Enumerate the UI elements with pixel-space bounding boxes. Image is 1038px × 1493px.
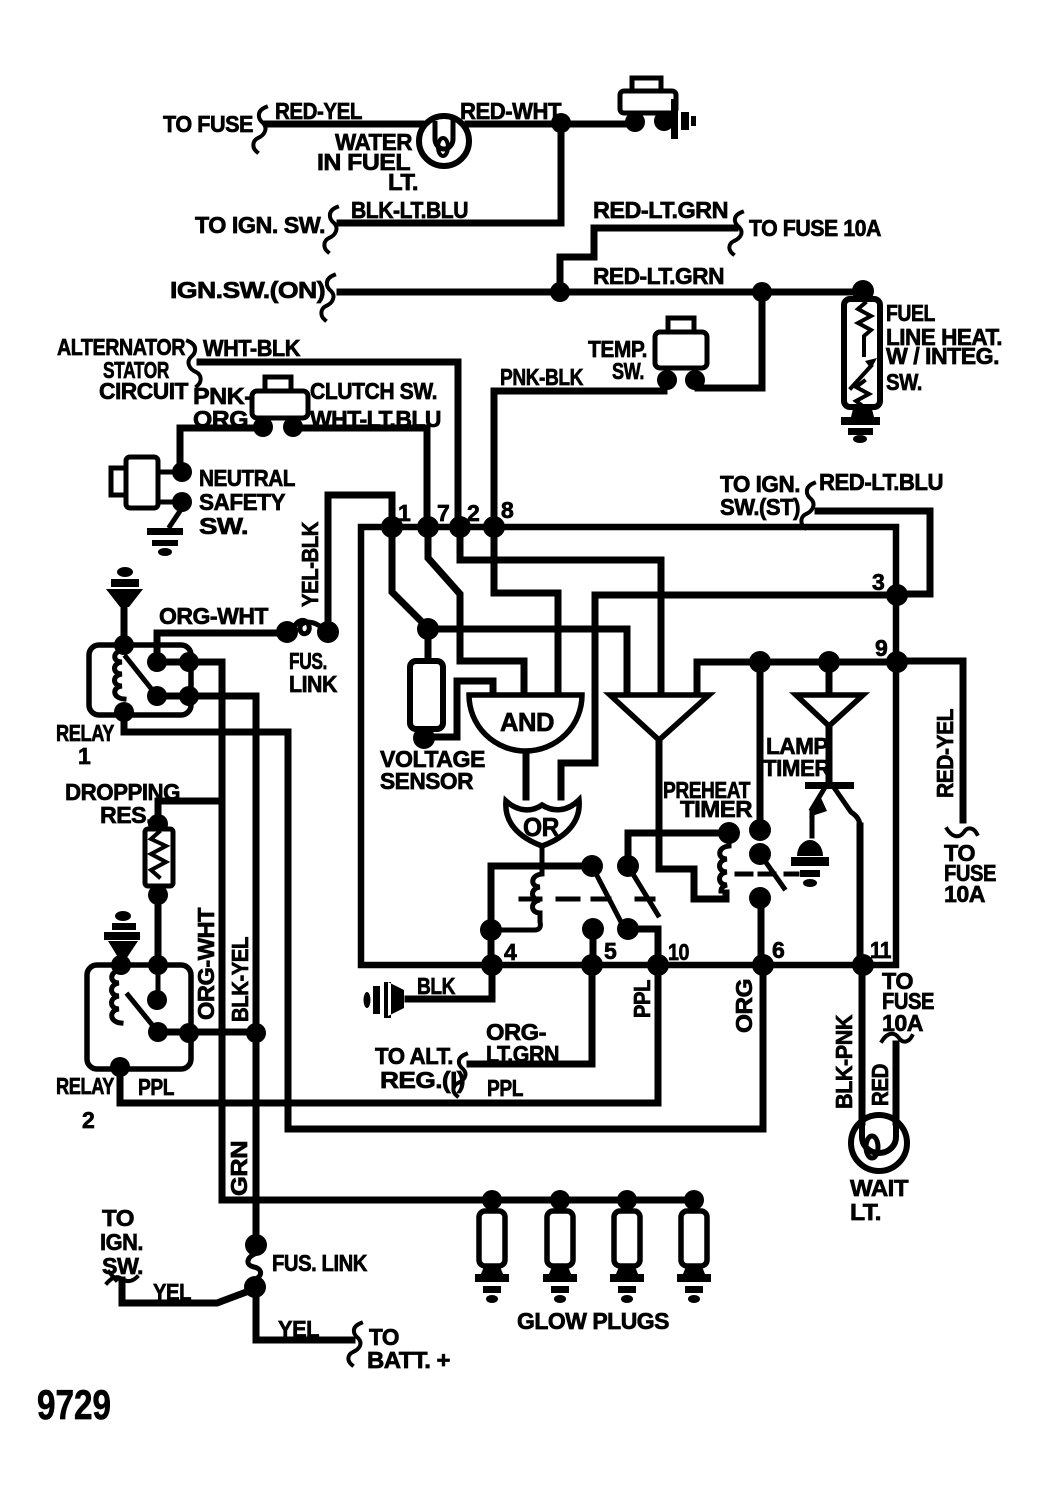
svg-text:CLUTCH SW.: CLUTCH SW. — [310, 378, 437, 404]
svg-text:7: 7 — [437, 500, 449, 526]
svg-text:YEL: YEL — [153, 1279, 191, 1305]
svg-text:WHT-BLK: WHT-BLK — [203, 335, 301, 361]
svg-text:RED-LT.BLU: RED-LT.BLU — [819, 469, 943, 495]
svg-text:TO IGN. SW.: TO IGN. SW. — [195, 212, 325, 238]
fusible link 2 — [245, 1234, 267, 1256]
wire pin 8 to AND input — [494, 530, 558, 692]
svg-text:W / INTEG.: W / INTEG. — [886, 343, 999, 369]
svg-text:2: 2 — [82, 1107, 94, 1133]
preheat amp triangle — [610, 695, 709, 740]
svg-text:RED-WHT: RED-WHT — [460, 98, 561, 124]
chassis ground at BLK — [373, 982, 404, 1018]
wire node 3 to OR input — [561, 595, 893, 797]
preheat relay coil — [718, 822, 740, 844]
brace at TO IGN. SW. — [324, 207, 337, 252]
junction dot y662 line (lamp timer) — [818, 651, 840, 673]
svg-text:5: 5 — [604, 938, 617, 964]
wire ORG-WHT relay1 to fus link — [157, 633, 282, 658]
wire RED-LT.GRN to fuse 10A — [560, 228, 735, 287]
wire AND output to OR — [523, 753, 530, 797]
pin 2 — [449, 516, 471, 538]
pin 11 — [852, 954, 874, 976]
wire PNK-BLK (pin 8 to temp switch) — [494, 391, 664, 527]
svg-text:BLK: BLK — [417, 973, 456, 999]
chassis ground at water-in-fuel switch — [671, 99, 696, 139]
wire bypass branch to switch 1 — [491, 866, 585, 926]
svg-text:10A: 10A — [882, 1010, 923, 1036]
svg-text:TO FUSE 10A: TO FUSE 10A — [749, 215, 881, 241]
glow plug 2 — [550, 1190, 570, 1210]
svg-text:NEUTRAL: NEUTRAL — [199, 465, 295, 491]
svg-text:PPL: PPL — [487, 1075, 523, 1101]
svg-text:FUS. LINK: FUS. LINK — [272, 1250, 368, 1276]
wire junction A to preheat amp input — [428, 629, 627, 692]
wire relay1 upper contact to glow plug bus — [157, 662, 698, 1200]
glow plug 3 — [617, 1190, 637, 1210]
svg-text:ORG-WHT: ORG-WHT — [193, 908, 219, 1020]
svg-text:LT.: LT. — [850, 1199, 881, 1225]
water-in-fuel switch (top right) — [632, 78, 661, 97]
wire PNK-ORG (clutch sw to NSS) — [180, 428, 263, 465]
svg-text:8: 8 — [501, 497, 514, 523]
wire IGN.SW.(ON) RED-LT.GRN — [340, 289, 863, 296]
lamp WAIT LT. — [851, 1115, 907, 1171]
node 3 — [886, 584, 908, 606]
svg-text:RED-YEL: RED-YEL — [932, 709, 958, 798]
wire WHT-LT.BLU (clutch sw to pin 7) — [296, 428, 427, 524]
svg-text:YEL-BLK: YEL-BLK — [297, 521, 323, 607]
wire node 9 to preheat amp — [697, 662, 893, 692]
svg-text:WAIT: WAIT — [850, 1175, 908, 1201]
relay 1 box — [89, 645, 191, 715]
brace at TO FUSE — [253, 107, 266, 152]
svg-text:PPL: PPL — [629, 980, 655, 1018]
voltage sensor — [425, 632, 432, 660]
svg-text:TO: TO — [102, 1205, 134, 1231]
wire voltage sensor output to AND — [430, 681, 493, 737]
arrow to ign sw — [107, 1272, 137, 1283]
svg-text:GLOW PLUGS: GLOW PLUGS — [517, 1308, 669, 1334]
svg-text:1: 1 — [398, 500, 411, 526]
wire pin 5 riser — [590, 933, 597, 960]
wire BLK-LT.BLU — [340, 130, 561, 223]
svg-text:OR: OR — [523, 812, 560, 842]
ground symbol (transistor) — [791, 840, 829, 877]
junction dot A — [417, 618, 439, 640]
relay 2 coil — [111, 955, 131, 975]
wire BLK (pin 4) — [408, 969, 492, 999]
dropping resistor — [158, 801, 222, 824]
glow plug 4 — [684, 1190, 704, 1210]
wire pin 7 to AND input — [428, 530, 524, 692]
junction dot at fuel line heater — [852, 280, 874, 302]
svg-text:CIRCUIT: CIRCUIT — [99, 378, 188, 404]
svg-text:9: 9 — [875, 635, 887, 661]
battery symbol above relay 2 — [115, 911, 131, 921]
wire lamp timer riser — [826, 666, 833, 692]
relay 2 contacts — [148, 955, 168, 975]
junction dot ign line left — [550, 282, 570, 302]
wire switch 2 upper to preheat coil top — [628, 833, 724, 862]
AND gate — [469, 695, 582, 751]
svg-text:LINK: LINK — [289, 671, 338, 697]
wire switch 2 lower to pin 10 — [628, 929, 658, 960]
svg-text:SAFETY: SAFETY — [199, 489, 285, 515]
pin 5 — [581, 954, 603, 976]
wire WHT-BLK (to pin 2) — [200, 362, 458, 524]
wire temp switch to ign line — [698, 298, 762, 388]
svg-text:LT.: LT. — [388, 169, 418, 195]
wire dropping res to relay 2 — [155, 895, 162, 965]
pin 10 — [647, 954, 669, 976]
dashed linkage 2 — [737, 872, 797, 877]
node junction RED-WHT — [551, 113, 571, 133]
svg-text:SW.: SW. — [886, 369, 922, 395]
wire PPL (relay2 coil to pin 10) — [120, 962, 658, 1103]
svg-text:SENSOR: SENSOR — [380, 768, 474, 794]
pin 4 — [481, 954, 503, 976]
wire preheat amp output to coil bottom — [659, 742, 726, 899]
control module box — [361, 527, 896, 965]
wire relay2 contact to BLK-YEL junction — [158, 1029, 256, 1036]
pin 6 — [752, 954, 774, 976]
transistor Q1 — [826, 728, 833, 781]
brace red-yel — [947, 828, 977, 836]
wire BLK-YEL (relay1 lower contact down) — [157, 696, 256, 1033]
wire RED-WHT — [468, 121, 628, 128]
svg-text:ORG-WHT: ORG-WHT — [159, 603, 268, 629]
relay 1 contacts — [147, 652, 167, 672]
wire GRN (down to fusible link 2) — [253, 1033, 260, 1238]
svg-text:BLK-LT.BLU: BLK-LT.BLU — [351, 197, 468, 223]
svg-text:6: 6 — [772, 937, 784, 963]
svg-text:RED: RED — [867, 1064, 893, 1106]
lamp WATER IN FUEL LT. — [419, 116, 469, 166]
wire RED-YEL — [267, 121, 421, 128]
svg-text:BATT. +: BATT. + — [367, 1347, 450, 1373]
OR gate — [506, 800, 579, 846]
wire pin 1 to junction A — [392, 530, 428, 628]
svg-text:1: 1 — [78, 743, 91, 769]
relay coil (module relay) — [497, 846, 542, 930]
svg-text:3: 3 — [872, 569, 884, 595]
svg-text:PPL: PPL — [138, 1074, 174, 1100]
svg-text:RES.: RES. — [100, 802, 152, 828]
wire RED-YEL from node 9 — [902, 661, 963, 820]
ground at neutral safety switch — [170, 508, 182, 526]
svg-text:RELAY: RELAY — [56, 1073, 114, 1099]
svg-text:PNK-BLK: PNK-BLK — [500, 364, 584, 390]
svg-text:TO ALT.: TO ALT. — [375, 1043, 453, 1069]
junction dot BLK-YEL/GRN — [246, 1023, 266, 1043]
temp switch — [668, 318, 694, 337]
svg-text:FUEL: FUEL — [886, 300, 935, 326]
brace at IGN.SW.(ON) — [321, 275, 334, 320]
wire YEL to ign. sw. — [122, 1280, 249, 1303]
svg-text:SW.: SW. — [199, 513, 248, 539]
glow plug 1 — [482, 1190, 502, 1210]
brace wait lamp feed — [882, 1034, 912, 1042]
clutch switch — [265, 377, 291, 395]
svg-text:YEL: YEL — [278, 1316, 319, 1342]
svg-text:ORG: ORG — [731, 979, 757, 1033]
switch 2 (module) — [617, 855, 639, 877]
pin 7 — [417, 516, 439, 538]
brace alternator — [188, 341, 201, 386]
junction dot ign line mid — [752, 282, 772, 302]
svg-text:9729: 9729 — [37, 1381, 111, 1428]
svg-text:BLK-YEL: BLK-YEL — [227, 937, 253, 1022]
fusible link FUS. LINK — [276, 621, 298, 643]
svg-text:TIMER: TIMER — [763, 755, 831, 781]
pin 8 — [483, 516, 505, 538]
brace ign st — [801, 483, 814, 528]
dashed linkage 1 — [521, 897, 653, 902]
svg-text:GRN: GRN — [226, 1141, 252, 1196]
svg-text:SW.(ST): SW.(ST) — [720, 494, 800, 520]
svg-text:RED-LT.GRN: RED-LT.GRN — [593, 197, 728, 223]
junction dot y662 line (preheat) — [749, 651, 771, 673]
svg-text:BLK-PNK: BLK-PNK — [831, 1014, 857, 1109]
junction dot left contact branch — [480, 919, 502, 941]
brace TO FUSE 10A — [729, 212, 742, 254]
svg-text:RED-YEL: RED-YEL — [275, 98, 362, 124]
fuel line heater — [844, 299, 880, 407]
wire YEL to batt + — [256, 1294, 352, 1340]
pin 1 — [381, 516, 403, 538]
svg-text:2: 2 — [467, 500, 479, 526]
wire ORG (relay1 coil to pin 6) — [124, 714, 763, 1129]
brace to alt reg — [453, 1054, 466, 1096]
relay 2 box — [87, 965, 191, 1069]
wire preheat switch to pin 6 — [758, 902, 765, 960]
wire transistor collector to pin 11 — [857, 826, 864, 960]
svg-text:10A: 10A — [944, 881, 985, 907]
svg-text:10: 10 — [668, 939, 689, 965]
svg-text:TIMER: TIMER — [680, 796, 753, 822]
wire YEL-BLK (fus link to pin 1) — [328, 495, 392, 626]
lamp timer triangle — [796, 695, 863, 726]
svg-text:LT.GRN: LT.GRN — [486, 1041, 559, 1067]
wire BLK-PNK (pin 11 to wait lamp) — [859, 969, 866, 1122]
relay 1 coil — [114, 635, 134, 655]
svg-text:AND: AND — [500, 707, 554, 737]
svg-text:RED-LT.GRN: RED-LT.GRN — [593, 263, 724, 289]
node 9 — [886, 651, 908, 673]
neutral safety switch — [111, 468, 131, 495]
svg-text:11: 11 — [870, 937, 892, 963]
switch 1 (module) — [581, 855, 603, 877]
wire RED (to wait lamp) — [893, 1044, 900, 1122]
brace TO BATT — [348, 1323, 361, 1365]
wire pin 4 riser — [488, 934, 495, 960]
preheat relay switch — [757, 666, 764, 822]
wire ORG-LT.GRN to alt reg — [470, 969, 592, 1064]
svg-text:IGN.: IGN. — [100, 1229, 143, 1255]
wire RED-LT.BLU to node 3 — [818, 511, 930, 594]
svg-text:SW.: SW. — [612, 358, 644, 384]
svg-text:4: 4 — [504, 939, 517, 965]
svg-text:IGN.SW.(ON): IGN.SW.(ON) — [170, 277, 325, 303]
battery symbol above relay 1 — [117, 567, 133, 577]
svg-text:TO FUSE: TO FUSE — [163, 111, 253, 137]
wire pin 2 to preheat amp input — [460, 530, 661, 692]
